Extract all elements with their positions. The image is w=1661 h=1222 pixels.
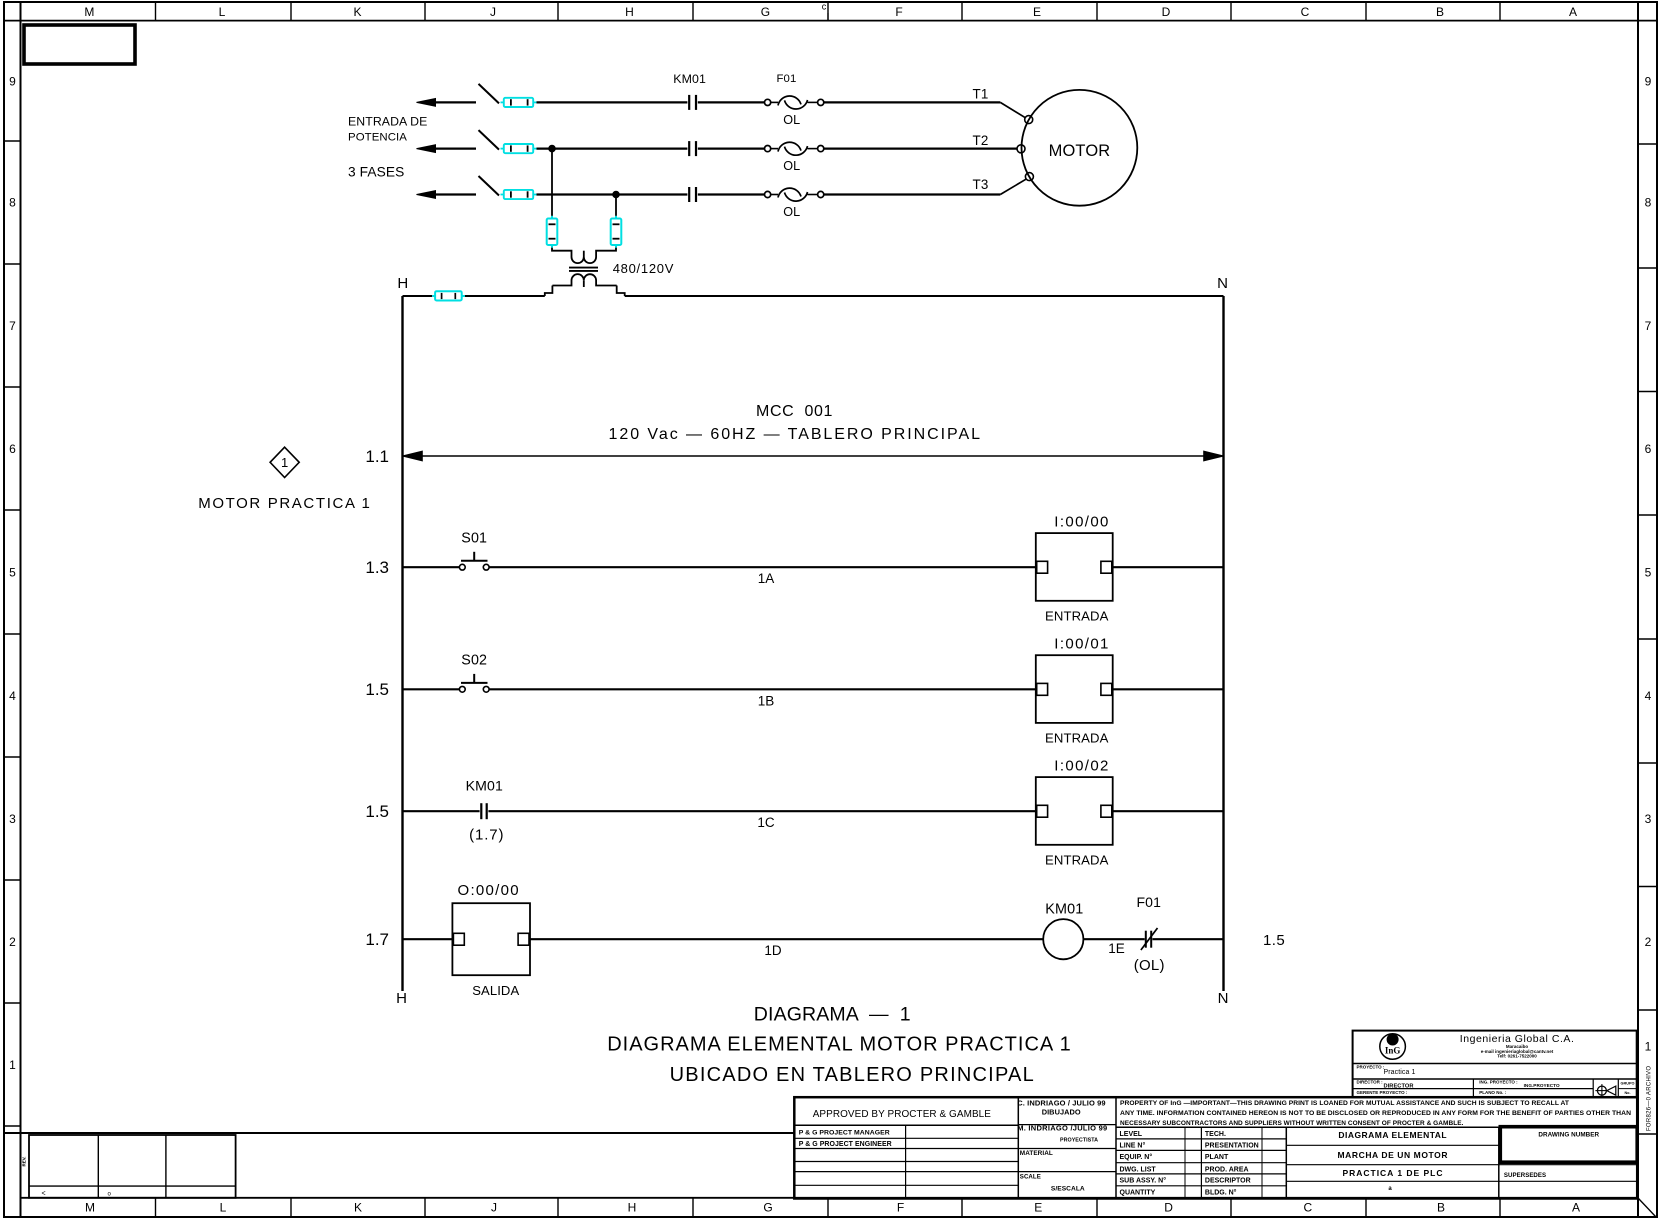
svg-text:3: 3 (1645, 812, 1652, 826)
svg-text:MARCHA DE UN MOTOR: MARCHA DE UN MOTOR (1338, 1150, 1448, 1160)
svg-text:DIRECTOR :: DIRECTOR : (1357, 1080, 1384, 1085)
svg-text:2: 2 (1645, 935, 1652, 949)
svg-text:TECH.: TECH. (1205, 1131, 1226, 1138)
svg-text:P & G PROJECT MANAGER: P & G PROJECT MANAGER (799, 1130, 890, 1137)
svg-text:L: L (220, 1201, 227, 1215)
svg-text:DIAGRAMA ELEMENTAL: DIAGRAMA ELEMENTAL (1338, 1130, 1446, 1140)
svg-text:APPROVED BY PROCTER & GAMBLE: APPROVED BY PROCTER & GAMBLE (813, 1109, 992, 1120)
svg-text:No.: No. (1624, 1091, 1630, 1095)
svg-text:1.7: 1.7 (365, 930, 389, 949)
svg-text:3 FASES: 3 FASES (348, 165, 404, 180)
svg-text:E: E (1033, 5, 1041, 19)
svg-text:8: 8 (9, 195, 16, 209)
svg-text:SUB ASSY. N°: SUB ASSY. N° (1120, 1177, 1167, 1185)
svg-text:ENTRADA: ENTRADA (1045, 731, 1109, 746)
svg-text:KM01: KM01 (673, 72, 706, 86)
svg-text:OL: OL (783, 159, 800, 173)
svg-text:G: G (761, 5, 770, 19)
svg-text:c: c (822, 2, 827, 12)
svg-text:BLDG. N°: BLDG. N° (1205, 1188, 1237, 1196)
svg-text:1.1: 1.1 (365, 447, 389, 466)
svg-text:1.3: 1.3 (365, 558, 389, 577)
svg-text:SUPERSEDES: SUPERSEDES (1504, 1172, 1546, 1179)
svg-text:M: M (85, 1201, 95, 1215)
svg-text:6: 6 (1645, 442, 1652, 456)
svg-text:I:00/02: I:00/02 (1054, 757, 1108, 774)
svg-text:PLANT: PLANT (1205, 1154, 1229, 1161)
svg-text:S02: S02 (461, 653, 487, 669)
svg-text:F01: F01 (1137, 894, 1162, 910)
svg-text:ING.PROYECTO: ING.PROYECTO (1524, 1083, 1560, 1088)
svg-text:4: 4 (1645, 689, 1652, 703)
svg-text:8: 8 (1645, 195, 1652, 209)
svg-text:1.5: 1.5 (365, 802, 389, 821)
svg-text:G: G (763, 1201, 772, 1215)
svg-text:MOTOR: MOTOR (1049, 142, 1111, 160)
svg-text:DIBUJADO: DIBUJADO (1042, 1108, 1081, 1117)
svg-text:1: 1 (9, 1058, 16, 1072)
svg-text:<: < (42, 1191, 46, 1198)
svg-text:DIAGRAMA ELEMENTAL MOTOR PRACT: DIAGRAMA ELEMENTAL MOTOR PRACTICA 1 (607, 1034, 1071, 1056)
svg-text:ING. PROYECTO :: ING. PROYECTO : (1479, 1080, 1518, 1085)
svg-text:F01: F01 (777, 73, 797, 85)
svg-text:SCALE: SCALE (1020, 1174, 1041, 1181)
svg-text:GERENTE PROYECTO :: GERENTE PROYECTO : (1357, 1090, 1408, 1095)
svg-text:1C: 1C (757, 815, 775, 830)
svg-text:QUANTITY: QUANTITY (1120, 1189, 1156, 1196)
svg-text:NECESSARY SUBCONTRACTORS AND S: NECESSARY SUBCONTRACTORS AND SUPPLIERS W… (1120, 1120, 1464, 1127)
svg-text:4: 4 (9, 689, 16, 703)
svg-text:PROYECTO :: PROYECTO : (1357, 1065, 1385, 1070)
svg-text:EQUIP. N°: EQUIP. N° (1120, 1153, 1153, 1161)
svg-text:K: K (354, 1201, 362, 1215)
svg-text:ENTRADA DE: ENTRADA DE (348, 114, 427, 128)
svg-text:PLANO No. :: PLANO No. : (1479, 1090, 1506, 1095)
svg-text:OL: OL (783, 113, 800, 127)
svg-text:N: N (1218, 990, 1229, 1007)
svg-text:E: E (1034, 1201, 1042, 1215)
svg-text:T1: T1 (973, 87, 989, 102)
svg-text:B: B (1437, 1201, 1445, 1215)
svg-text:(OL): (OL) (1134, 957, 1165, 974)
svg-text:MOTOR PRACTICA 1: MOTOR PRACTICA 1 (198, 495, 370, 512)
svg-text:PROYECTISTA: PROYECTISTA (1060, 1138, 1098, 1144)
svg-text:Telf: 0261-7522000: Telf: 0261-7522000 (1497, 1054, 1537, 1059)
svg-text:DRAWING NUMBER: DRAWING NUMBER (1538, 1132, 1599, 1139)
svg-text:I:00/00: I:00/00 (1054, 513, 1108, 530)
svg-text:H: H (396, 990, 407, 1007)
svg-text:UBICADO EN TABLERO PRINCIPAL: UBICADO EN TABLERO PRINCIPAL (670, 1064, 1034, 1086)
svg-text:GRUPO: GRUPO (1621, 1082, 1635, 1086)
svg-text:T2: T2 (973, 133, 989, 148)
svg-text:DIAGRAMA — 1: DIAGRAMA — 1 (754, 1003, 911, 1025)
svg-text:1D: 1D (764, 943, 782, 958)
svg-text:K: K (353, 5, 361, 19)
svg-text:D: D (1164, 1201, 1173, 1215)
svg-text:DESCRIPTOR: DESCRIPTOR (1205, 1178, 1251, 1185)
svg-text:1: 1 (1645, 1039, 1652, 1053)
svg-text:H: H (397, 275, 408, 292)
svg-text:1.5: 1.5 (1263, 932, 1285, 949)
svg-text:ENTRADA: ENTRADA (1045, 608, 1109, 623)
svg-text:1.5: 1.5 (365, 680, 389, 699)
svg-text:LEVEL: LEVEL (1120, 1131, 1143, 1138)
svg-text:S01: S01 (461, 530, 487, 546)
svg-text:M. INDRIAGO /JULIO 99: M. INDRIAGO /JULIO 99 (1017, 1123, 1107, 1132)
svg-text:480/120V: 480/120V (613, 261, 674, 276)
svg-text:L: L (219, 5, 226, 19)
svg-text:J: J (490, 5, 496, 19)
svg-text:N: N (1217, 275, 1228, 292)
svg-text:120 Vac — 60HZ — TABLERO PRINC: 120 Vac — 60HZ — TABLERO PRINCIPAL (609, 426, 981, 443)
svg-text:A: A (1569, 5, 1577, 19)
svg-text:PRESENTATION: PRESENTATION (1205, 1143, 1259, 1150)
svg-text:1E: 1E (1108, 941, 1125, 956)
svg-text:InG: InG (1385, 1046, 1401, 1056)
svg-text:PROD. AREA: PROD. AREA (1205, 1166, 1249, 1173)
svg-text:REV.: REV. (22, 1156, 27, 1166)
svg-text:POTENCIA: POTENCIA (348, 132, 407, 144)
svg-text:SALIDA: SALIDA (472, 983, 519, 998)
svg-text:M: M (84, 5, 94, 19)
svg-text:C: C (1301, 5, 1310, 19)
svg-text:H: H (625, 5, 634, 19)
svg-text:(1.7): (1.7) (469, 827, 503, 844)
svg-text:1B: 1B (758, 693, 775, 708)
svg-text:2: 2 (9, 935, 16, 949)
svg-text:S/ESCALA: S/ESCALA (1051, 1186, 1085, 1193)
svg-text:OL: OL (783, 205, 800, 219)
svg-text:6: 6 (9, 442, 16, 456)
svg-text:B: B (1436, 5, 1444, 19)
svg-text:C. INDRIAGO / JULIO 99: C. INDRIAGO / JULIO 99 (1017, 1098, 1105, 1107)
svg-text:5: 5 (1645, 565, 1652, 579)
svg-text:C: C (1303, 1201, 1312, 1215)
svg-text:DWG. LIST: DWG. LIST (1120, 1166, 1157, 1173)
svg-text:J: J (491, 1201, 497, 1215)
svg-text:Practica 1: Practica 1 (1384, 1069, 1416, 1076)
svg-text:9: 9 (1645, 74, 1652, 88)
svg-text:T3: T3 (973, 177, 989, 192)
svg-text:9: 9 (9, 74, 16, 88)
svg-text:DIRECTOR: DIRECTOR (1384, 1083, 1414, 1089)
svg-text:PROPERTY OF InG —IMPORTANT—THI: PROPERTY OF InG —IMPORTANT—THIS DRAWING … (1120, 1100, 1570, 1107)
svg-text:1: 1 (281, 455, 288, 470)
svg-text:F: F (895, 5, 902, 19)
svg-text:ENTRADA: ENTRADA (1045, 852, 1109, 867)
svg-text:ANY TIME. INFORMATION CONTAINE: ANY TIME. INFORMATION CONTAINED HEREON I… (1120, 1110, 1631, 1117)
svg-text:LINE N°: LINE N° (1120, 1142, 1146, 1150)
svg-text:H: H (628, 1201, 637, 1215)
svg-text:O:00/00: O:00/00 (458, 882, 519, 899)
svg-text:MATERIAL: MATERIAL (1020, 1150, 1053, 1157)
svg-text:FOR826—0 ARCHIVO: FOR826—0 ARCHIVO (1647, 1066, 1653, 1131)
svg-text:7: 7 (1645, 319, 1652, 333)
svg-text:P & G PROJECT ENGINEER: P & G PROJECT ENGINEER (799, 1141, 892, 1148)
svg-text:KM01: KM01 (466, 777, 503, 793)
svg-text:KM01: KM01 (1045, 902, 1083, 918)
svg-text:5: 5 (9, 565, 16, 579)
svg-text:1A: 1A (758, 571, 775, 586)
svg-text:MCC 001: MCC 001 (756, 403, 832, 420)
svg-text:PRACTICA 1 DE PLC: PRACTICA 1 DE PLC (1343, 1168, 1443, 1178)
svg-text:F: F (897, 1201, 904, 1215)
svg-text:D: D (1162, 5, 1171, 19)
svg-text:I:00/01: I:00/01 (1054, 636, 1108, 653)
svg-text:3: 3 (9, 812, 16, 826)
svg-text:A: A (1572, 1201, 1580, 1215)
svg-text:7: 7 (9, 319, 16, 333)
